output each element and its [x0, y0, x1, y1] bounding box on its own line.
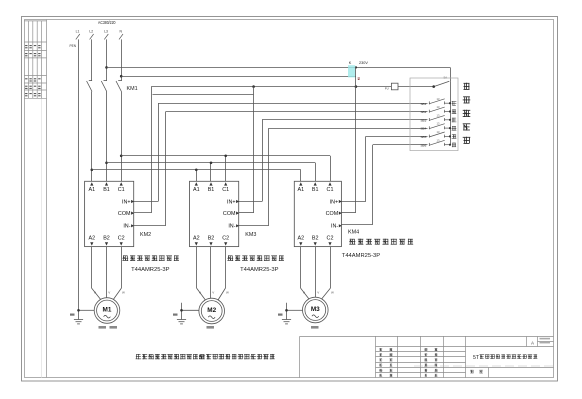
- motor M1: [94, 298, 120, 324]
- wire bus C drop to KM3 C1: [225, 156, 227, 182]
- motor M2 rating text: [207, 326, 215, 329]
- breaker KM1 pole at x91.8: [87, 81, 93, 92]
- wire KM2 IN+ horizontal: [134, 201, 158, 203]
- junction SB2 common: [449, 110, 451, 112]
- svg-text:FU: FU: [385, 86, 389, 90]
- svg-text:L2: L2: [89, 30, 93, 34]
- pushbutton SB5: [429, 132, 450, 138]
- wire bus A y170: [92, 169, 301, 171]
- pushbutton SB3: [429, 115, 450, 121]
- svg-text:K: K: [349, 61, 352, 65]
- svg-text:C2: C2: [327, 236, 334, 242]
- contactor KM4 body: [294, 181, 341, 246]
- wire bus A drop to KM4 A1: [300, 170, 302, 182]
- svg-text:T44AMR25-3P: T44AMR25-3P: [240, 267, 278, 273]
- junction bus B / KM3: [210, 162, 213, 165]
- wire bus B drop to KM4 B1: [315, 163, 317, 182]
- svg-text:IN+: IN+: [330, 199, 339, 205]
- wire phase vertical upper x121.2: [121, 39, 123, 81]
- pushbutton SB1: [429, 99, 450, 105]
- wire row2 to button box: [166, 111, 428, 113]
- junction SB3 common: [449, 119, 451, 121]
- wire row3 to button box: [262, 119, 428, 121]
- motor M2: [199, 298, 225, 324]
- svg-text:U: U: [199, 291, 201, 295]
- svg-text:B2: B2: [208, 236, 215, 242]
- breaker KM1 pole at x106.5: [101, 81, 107, 92]
- svg-text:A2: A2: [89, 236, 96, 242]
- svg-text:U: U: [94, 291, 96, 295]
- junction PE M2: [180, 309, 183, 312]
- svg-text:W: W: [331, 291, 334, 295]
- revision table cell entries: [25, 46, 40, 96]
- label KM3 type chinese: [227, 255, 284, 261]
- svg-text:T44AMR25-3P: T44AMR25-3P: [342, 253, 380, 259]
- svg-text:V: V: [108, 291, 110, 295]
- wire bus A drop to KM3 A1: [196, 170, 198, 182]
- svg-text:N: N: [119, 30, 122, 34]
- junction bus C tap: [120, 155, 123, 158]
- svg-text:SB5: SB5: [420, 135, 426, 139]
- breaker KM1 pole at x121.2: [116, 81, 122, 92]
- pushbutton SB4: [429, 124, 450, 130]
- svg-text:A1: A1: [89, 187, 96, 193]
- svg-text:SA: SA: [444, 76, 448, 80]
- junction SB6 common: [449, 144, 451, 146]
- svg-text:230V: 230V: [359, 61, 368, 65]
- supply terminal L1: [76, 30, 80, 40]
- left margin faint divider: [41, 98, 43, 377]
- pushbutton SB2: [429, 107, 450, 113]
- svg-text:W: W: [226, 291, 229, 295]
- wire phase vertical lower x91.8: [91, 92, 93, 182]
- svg-text:V: V: [212, 291, 214, 295]
- motor M3 rating text: [311, 326, 319, 329]
- svg-text:5T: 5T: [473, 355, 480, 361]
- wire KM2 COM horizontal: [134, 212, 152, 214]
- svg-text:SB2: SB2: [420, 110, 426, 114]
- wire 230V line y67: [107, 67, 451, 69]
- svg-text:IN-: IN-: [123, 224, 130, 230]
- svg-text:IN+: IN+: [122, 199, 131, 205]
- svg-text:IN-: IN-: [331, 224, 338, 230]
- junction SB5 common: [449, 135, 451, 137]
- junction bus A tap: [91, 169, 94, 172]
- wire COM line left segment y86: [151, 86, 391, 88]
- junction PE M3: [285, 309, 288, 312]
- svg-text:SB4: SB4: [420, 127, 426, 131]
- wire KM2 IN+ riser: [158, 103, 160, 201]
- svg-text:T44AMR25-3P: T44AMR25-3P: [131, 267, 169, 273]
- svg-text:SB3: SB3: [420, 118, 426, 122]
- ground at motor M1: [74, 310, 94, 324]
- wire row1 to button box: [158, 103, 428, 105]
- master switch SA: [434, 81, 450, 86]
- ground at motor M2: [177, 303, 199, 324]
- title block row labels: [379, 348, 382, 350]
- svg-text:V: V: [317, 291, 319, 295]
- svg-text:L3: L3: [104, 30, 108, 34]
- junction SB1 common: [449, 102, 451, 104]
- svg-text:C1: C1: [327, 187, 334, 193]
- supply terminal N: [119, 30, 123, 40]
- revision table top-left: [24, 21, 46, 98]
- wire bus C drop to KM4 C1: [330, 156, 332, 182]
- svg-text:B2: B2: [312, 236, 319, 242]
- svg-text:M1: M1: [103, 306, 112, 313]
- supply terminal L2: [89, 30, 93, 40]
- motor M1 rating text: [99, 326, 118, 329]
- wire KM4 IN- riser: [372, 145, 374, 225]
- wire KM3 IN- riser: [268, 128, 270, 226]
- wire button common vertical: [450, 82, 452, 145]
- svg-text:C1: C1: [118, 187, 125, 193]
- wire KM3 COM horizontal: [239, 212, 254, 214]
- wire COM interlink y94: [153, 94, 254, 96]
- junction bus A / KM3: [195, 169, 198, 172]
- motor M3 feeder wires: [301, 247, 331, 299]
- svg-text:SB6: SB6: [420, 143, 426, 147]
- title block dashed rule: [414, 365, 554, 367]
- svg-text:U: U: [303, 291, 305, 295]
- motor M2 phase labels: [199, 291, 229, 295]
- wire bus B y163: [107, 162, 316, 164]
- wire KM2 IN- riser: [165, 112, 167, 226]
- wire KM3 IN- horizontal: [239, 225, 269, 227]
- svg-text:A1: A1: [193, 187, 200, 193]
- contactor KM3 body: [190, 181, 239, 246]
- motor M3: [303, 297, 329, 323]
- wire row6 to button box: [373, 144, 428, 146]
- title block: [300, 336, 554, 378]
- junction master switch: [432, 85, 435, 88]
- junction SB4 common: [449, 127, 451, 129]
- fuse FU: [391, 83, 398, 90]
- motor M1 phase labels: [94, 291, 125, 295]
- label KM2 type chinese: [122, 255, 179, 261]
- junction bus C / KM3: [224, 155, 227, 158]
- junction bus B tap: [105, 162, 108, 165]
- svg-text:KM4: KM4: [348, 230, 359, 236]
- svg-text:W: W: [122, 291, 125, 295]
- motor M3 phase labels: [303, 291, 334, 295]
- svg-text:A: A: [531, 341, 534, 346]
- motor M1 feeder wires: [92, 247, 122, 300]
- junction 230V / common riser: [355, 66, 357, 68]
- svg-text:A1: A1: [298, 187, 305, 193]
- wire phase vertical upper x91.8: [91, 39, 93, 81]
- highlight marker cyan: [348, 65, 355, 77]
- junction COM2 riser: [252, 85, 255, 88]
- svg-text:KM1: KM1: [127, 86, 138, 92]
- wire KM2 IN- horizontal: [134, 225, 166, 227]
- wire KM3 COM riser: [253, 87, 255, 213]
- svg-text:KM2: KM2: [140, 232, 151, 238]
- wire PEN vertical x78: [78, 39, 80, 319]
- svg-text:COM: COM: [118, 211, 131, 217]
- svg-text:M3: M3: [311, 306, 320, 313]
- supply terminal L3: [104, 30, 108, 40]
- svg-text:IN-: IN-: [228, 224, 235, 230]
- wire 230V drop into button box: [450, 67, 452, 81]
- wire KM2 COM riser: [151, 87, 153, 213]
- wire phase vertical upper x106.5: [106, 39, 108, 81]
- wire COM line right segment: [398, 86, 434, 88]
- wire into KM4 COM: [341, 212, 356, 214]
- svg-text:C1: C1: [222, 187, 229, 193]
- svg-text:A2: A2: [193, 236, 200, 242]
- svg-text:COM: COM: [326, 211, 339, 217]
- svg-text:PEN: PEN: [70, 44, 77, 48]
- svg-text:B1: B1: [208, 187, 215, 193]
- svg-text:B1: B1: [103, 187, 110, 193]
- tiny red annotation: [358, 78, 360, 79]
- ground at motor M3: [282, 303, 303, 324]
- svg-text:M2: M2: [207, 307, 216, 314]
- svg-text:SB1: SB1: [420, 102, 426, 106]
- svg-text:C2: C2: [222, 236, 229, 242]
- control button box outline: [410, 78, 458, 151]
- wire row5 to button box: [366, 136, 428, 138]
- pushbutton SB6: [429, 140, 450, 146]
- junction L3 tap: [120, 75, 123, 78]
- wire bus C y156: [121, 155, 330, 157]
- wire KM4 IN+ horizontal: [341, 201, 365, 203]
- wire phase vertical lower x106.5: [106, 92, 108, 182]
- label control button box vertical chinese: [463, 83, 469, 90]
- wire tap line y76: [121, 76, 356, 78]
- caption chinese bottom: [136, 354, 205, 359]
- wire KM3 IN+ riser: [262, 120, 264, 202]
- wire KM4 IN- horizontal: [341, 224, 373, 226]
- svg-text:IN+: IN+: [227, 199, 236, 205]
- svg-text:L1: L1: [76, 30, 80, 34]
- wire row4 to button box: [269, 128, 428, 130]
- junction L2 230V tap: [105, 66, 108, 69]
- wire KM3 IN+ horizontal: [239, 201, 262, 203]
- svg-text:COM: COM: [223, 211, 236, 217]
- motor M2 feeder wires: [197, 247, 226, 300]
- wire phase vertical lower x121.2: [121, 92, 123, 182]
- wire KM4 IN+ riser: [365, 136, 367, 201]
- svg-text:5T: 5T: [199, 355, 206, 361]
- svg-text:B2: B2: [103, 236, 110, 242]
- left margin strip divider: [46, 19, 48, 377]
- wire common riser x356: [355, 67, 357, 212]
- label KM4 type chinese: [349, 239, 413, 245]
- svg-text:A2: A2: [298, 236, 305, 242]
- svg-text:C2: C2: [118, 236, 125, 242]
- svg-text:AC380/220: AC380/220: [98, 20, 116, 25]
- title block sheet count: [470, 370, 474, 373]
- svg-text:B1: B1: [312, 187, 319, 193]
- contactor KM2 body: [85, 181, 134, 246]
- junction PE M1: [77, 309, 80, 312]
- svg-text:KM3: KM3: [245, 232, 256, 238]
- junction COM3 riser: [355, 85, 358, 88]
- wire bus B drop to KM3 B1: [210, 163, 212, 182]
